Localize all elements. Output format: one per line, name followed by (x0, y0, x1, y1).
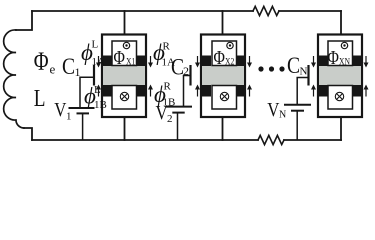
svg-text:N: N (300, 66, 308, 78)
svg-text:2: 2 (183, 64, 189, 78)
ellipsis dots between cell 2 and cell N (258, 66, 284, 71)
junction JNA-L (black) (319, 56, 328, 67)
wire drop to cell 2 (222, 11, 224, 34)
wire cell N to bottom rail (340, 118, 342, 140)
arrow phase up, cellN right bottom (364, 85, 369, 97)
qubit cell N (311, 35, 369, 118)
capacitor C2 plate (189, 65, 191, 86)
junction J1A-L (black) (103, 56, 112, 67)
cell N outer loop box (318, 35, 362, 118)
arrow phase up, cellN left bottom (311, 85, 316, 97)
flux in symbol (circle-cross) cell N (335, 92, 343, 100)
flux in symbol (circle-cross) cell 2 (220, 92, 228, 100)
svg-text:Φ: Φ (214, 46, 225, 68)
svg-text:L: L (94, 84, 101, 96)
arrow phase down, cellN left top (311, 56, 316, 68)
arrow phase up, cell2 right bottom (247, 85, 252, 97)
wire cell 2 to bottom rail (222, 118, 224, 140)
svg-text:L: L (34, 85, 46, 112)
arrow phase up, cell1 left bottom (96, 85, 101, 97)
svg-text:N: N (279, 110, 286, 121)
svg-text:C: C (62, 54, 75, 80)
junction J1B-R (black) (137, 85, 146, 97)
inductor L coil (4, 30, 24, 128)
battery V2 (166, 107, 192, 140)
junction J2A-L (black) (202, 56, 211, 67)
arrow phase up, cell1 right bottom (148, 85, 153, 97)
resistor bottom (258, 135, 284, 144)
cell 2 bottom flux box (212, 86, 237, 110)
svg-text:Φ: Φ (114, 46, 125, 68)
svg-text:e: e (50, 62, 56, 77)
wire bottom rail (32, 139, 341, 141)
cell 2 top flux box (212, 41, 237, 66)
junction JNA-R (black) (352, 56, 361, 67)
svg-text:1A: 1A (92, 56, 106, 68)
wire top-left step (16, 11, 32, 30)
svg-text:Φ: Φ (328, 46, 339, 68)
cell 1 bottom flux box (112, 86, 137, 110)
svg-text:2: 2 (167, 113, 173, 125)
cell N island (gray bar) (319, 66, 361, 85)
svg-text:R: R (164, 81, 172, 93)
flux out symbol (circle-dot) cell 1 (123, 42, 129, 48)
cell N bottom flux box (328, 86, 353, 110)
arrow phase down, cell1 left top (96, 56, 101, 68)
qubit cell 2 (195, 35, 252, 118)
svg-text:XN: XN (339, 57, 350, 67)
wire C1 to V1 (80, 77, 94, 108)
cell 2 island (gray bar) (202, 66, 244, 85)
capacitor C1 plate (93, 65, 95, 86)
junction JNB-L (black) (319, 85, 328, 97)
wire CN to VN (297, 78, 308, 105)
junction J2B-R (black) (236, 85, 245, 97)
svg-text:1: 1 (75, 65, 81, 79)
arrow phase down, cell2 left top (195, 56, 200, 68)
battery VN (284, 105, 311, 140)
svg-text:C: C (287, 53, 300, 79)
cell 2 outer loop box (201, 35, 245, 118)
battery V1 (69, 108, 95, 140)
svg-text:Φ: Φ (34, 48, 49, 77)
cell 1 island (gray bar) (103, 66, 145, 85)
resistor top (253, 6, 279, 15)
svg-text:X2: X2 (225, 57, 234, 67)
junction J1B-L (black) (103, 85, 112, 97)
flux out symbol (circle-dot) cell N (341, 42, 347, 48)
flux out symbol (circle-dot) cell 2 (227, 42, 233, 48)
junction J1A-R (black) (137, 56, 146, 67)
flux in symbol (circle-cross) cell 1 (120, 92, 128, 100)
wire drop to cell 1 (124, 11, 126, 34)
wire bottom-left step (24, 128, 32, 140)
svg-text:1B: 1B (94, 99, 107, 111)
svg-text:1: 1 (66, 111, 72, 123)
svg-text:1A: 1A (162, 57, 176, 69)
junction JNB-R (black) (352, 85, 361, 97)
svg-text:L: L (92, 39, 99, 51)
capacitor CN plate (307, 65, 309, 86)
junction J2A-R (black) (236, 56, 245, 67)
wire C2 to V2 (184, 76, 191, 107)
arrow phase down, cell1 right top (148, 56, 153, 68)
arrow phase down, cellN right top (364, 56, 369, 68)
cell 1 top flux box (112, 41, 137, 66)
svg-text:R: R (163, 41, 171, 53)
arrow phase up, cell2 left bottom (195, 85, 200, 97)
arrow phase down, cell2 right top (247, 56, 252, 68)
cell 1 outer loop box (102, 35, 146, 118)
cell N top flux box (328, 41, 353, 66)
wire cell 1 to bottom rail (124, 118, 126, 140)
svg-text:1B: 1B (163, 97, 176, 109)
qubit cell 1 (96, 35, 153, 118)
svg-text:X1: X1 (126, 57, 135, 67)
junction J2B-L (black) (202, 85, 211, 97)
wire top rail (32, 10, 341, 12)
wire drop to cell N (340, 11, 342, 34)
